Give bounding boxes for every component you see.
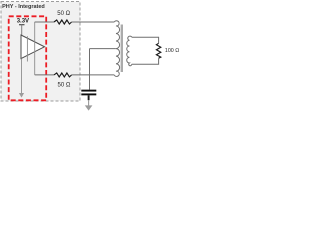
resistor R2 50 ohm (bottom): [54, 73, 72, 77]
transformer T1 primary winding: [114, 21, 119, 77]
ground arrow left: [19, 93, 24, 98]
wire driver to ground: [21, 59, 23, 94]
PHY block background box: [1, 2, 80, 102]
wire capacitor to ground (stub): [88, 95, 90, 100]
wire center tap down to capacitor: [89, 49, 91, 90]
transformer core: [121, 25, 123, 73]
wire load bottom to secondary: [132, 58, 159, 64]
wire bottom output corner: [35, 74, 54, 76]
transformer T1 secondary winding: [127, 36, 132, 66]
red dashed highlight box: [9, 16, 47, 100]
resistor R1 50 ohm (top): [54, 20, 72, 24]
wire 3.3V to driver: [21, 25, 23, 36]
capacitor C1 plate 1: [81, 90, 96, 92]
ground arrow below capacitor: [85, 105, 93, 110]
rail through driver (vertical at x=27.4): [26, 36, 28, 61]
capacitor C1 plate 2: [81, 93, 96, 95]
wire top resistor to transformer: [72, 21, 115, 23]
output rail (vertical at x=34.7 top corner to bottom corner): [34, 22, 36, 75]
wire secondary top to load: [132, 37, 159, 43]
op-amp driver triangle U1: [21, 35, 45, 59]
wire top output: [35, 21, 54, 23]
wire bottom resistor to transformer: [72, 74, 115, 76]
svg-text:PHY - Integrated: PHY - Integrated: [2, 4, 45, 10]
resistor R3 100 ohm: [156, 43, 160, 58]
svg-text:50 Ω: 50 Ω: [58, 83, 71, 89]
center tap wire: [90, 48, 116, 50]
svg-text:3.3V: 3.3V: [17, 18, 29, 24]
3.3V supply bar: [19, 24, 25, 26]
wire stub to arrow: [88, 100, 90, 106]
svg-text:50 Ω: 50 Ω: [57, 11, 70, 17]
svg-text:100 Ω: 100 Ω: [165, 48, 179, 54]
